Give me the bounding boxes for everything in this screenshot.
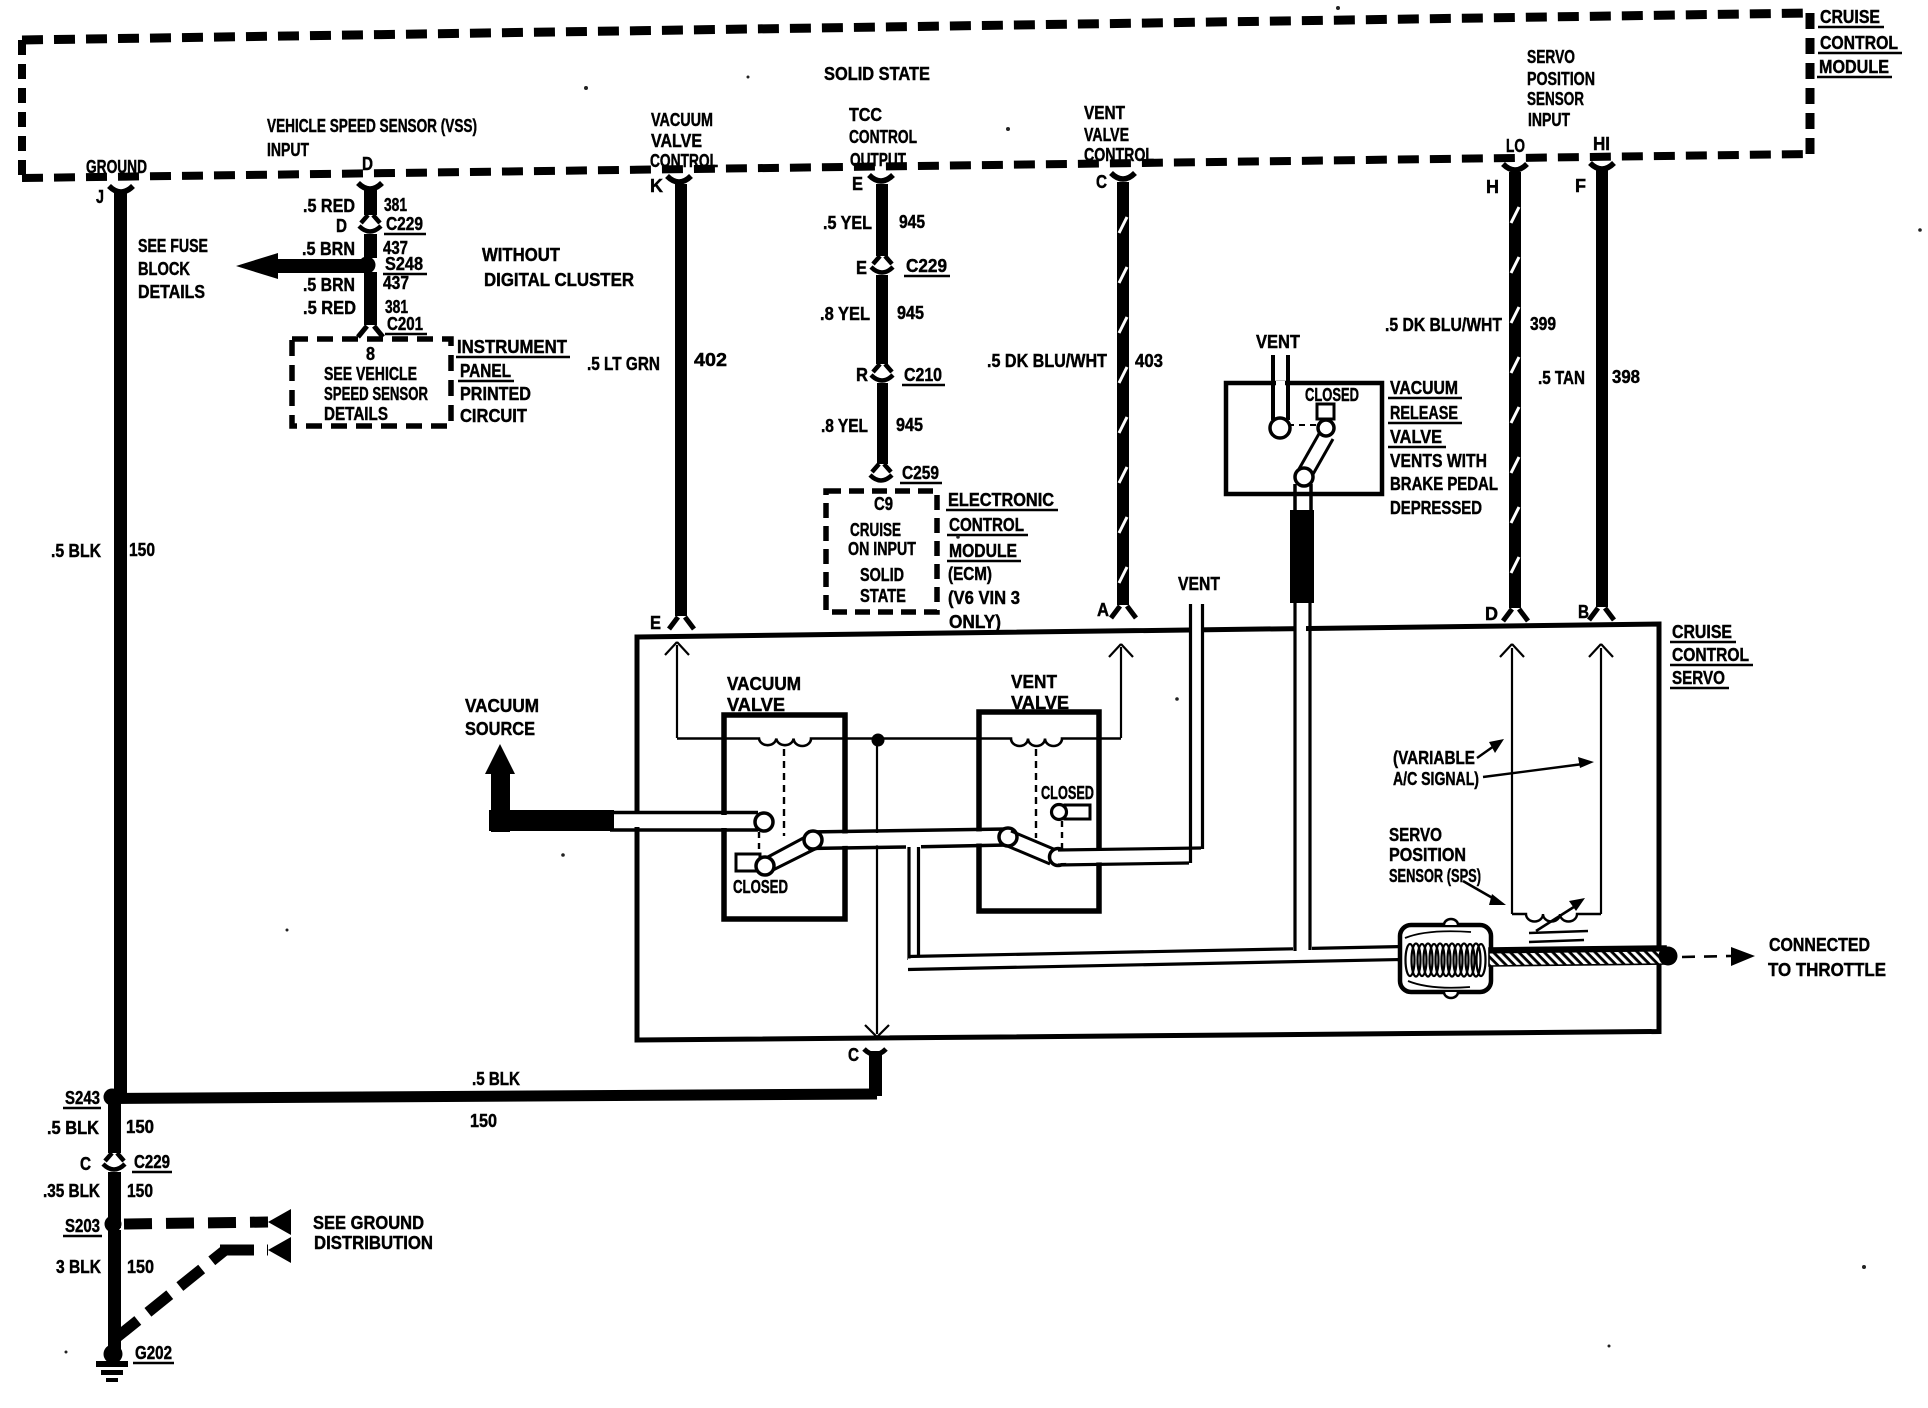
vacuum valve closed seat rect <box>736 854 760 871</box>
connector terminal K <box>667 176 691 182</box>
wire VSS 437/381 lower <box>364 272 377 325</box>
svg-text:CONTROL: CONTROL <box>650 151 718 171</box>
label TCC CONTROL OUTPUT <box>849 105 917 170</box>
down tube from mid tube <box>909 843 919 961</box>
svg-text:150: 150 <box>126 1117 154 1137</box>
mid tube white fill <box>810 831 1007 847</box>
throttle rod end cap <box>1659 947 1678 966</box>
wire TCC .8 YEL 945 lower <box>877 383 888 464</box>
svg-text:VALVE: VALVE <box>727 695 785 715</box>
release valve arm <box>1299 432 1333 476</box>
label SERVO POSITION SENSOR INPUT <box>1527 47 1595 130</box>
svg-text:CLOSED: CLOSED <box>1041 783 1094 803</box>
wire C stub <box>869 1051 882 1096</box>
vacuum motor body <box>1400 925 1491 992</box>
svg-text:SEE GROUND: SEE GROUND <box>313 1213 424 1233</box>
release valve outlet tube <box>1295 484 1311 512</box>
vacuum valve plunger dashed line <box>783 749 785 836</box>
mid tube end circle at vent valve <box>999 828 1017 846</box>
label (VARIABLE A/C SIGNAL) <box>1393 748 1479 789</box>
connector C201 <box>358 326 383 337</box>
svg-text:DIGITAL CLUSTER: DIGITAL CLUSTER <box>484 270 634 290</box>
svg-text:CONTROL: CONTROL <box>1820 33 1898 53</box>
white gap in servo left edge for source tube <box>632 814 644 827</box>
connector terminal F <box>1590 163 1614 169</box>
svg-text:150: 150 <box>127 1257 154 1277</box>
svg-text:.5 BRN: .5 BRN <box>302 239 355 259</box>
dashed arrow to throttle <box>1682 947 1755 966</box>
svg-text:B: B <box>1578 602 1589 622</box>
svg-text:VEHICLE SPEED SENSOR (VSS): VEHICLE SPEED SENSOR (VSS) <box>267 116 477 136</box>
vacuum valve arm pivot circle <box>756 857 774 875</box>
connector servo D <box>1503 609 1528 621</box>
svg-text:CONNECTED: CONNECTED <box>1769 935 1870 955</box>
svg-text:S203: S203 <box>65 1216 100 1236</box>
label INSTRUMENT PANEL PRINTED CIRCUIT <box>456 337 570 426</box>
wire servo LO .5 DK BLU/WHT 399 <box>1509 172 1521 608</box>
svg-text:SERVO: SERVO <box>1672 668 1725 688</box>
ECM dashed box C9 cruise on input <box>826 491 937 612</box>
vacuum motor spring coil <box>1406 944 1486 977</box>
arrow up to A inside servo <box>1109 644 1133 738</box>
connector terminal D <box>358 183 382 189</box>
splice S248 <box>359 257 376 274</box>
svg-text:(VARIABLE: (VARIABLE <box>1393 748 1475 768</box>
svg-text:CONTROL: CONTROL <box>1084 145 1154 165</box>
wire vacuum valve control .5 LT GRN 402 <box>675 184 687 616</box>
SPS resistor element <box>1512 914 1601 922</box>
svg-text:SPEED SENSOR: SPEED SENSOR <box>324 384 428 404</box>
label CRUISE CONTROL SERVO <box>1670 622 1753 688</box>
connector servo B <box>1589 608 1614 620</box>
svg-text:C: C <box>1096 172 1107 192</box>
svg-text:SENSOR: SENSOR <box>1527 89 1584 109</box>
arrow to fuse block <box>236 253 278 279</box>
svg-text:DEPRESSED: DEPRESSED <box>1390 498 1482 518</box>
throttle rod hatched <box>1489 946 1666 966</box>
wire servo HI .5 TAN 398 <box>1596 170 1608 607</box>
svg-text:C229: C229 <box>134 1152 170 1172</box>
svg-text:E: E <box>856 258 867 278</box>
svg-text:VALVE: VALVE <box>651 131 702 151</box>
svg-text:H: H <box>1486 177 1499 197</box>
vent pipe into release valve <box>1273 355 1288 420</box>
svg-text:D: D <box>1485 604 1498 624</box>
cruise control module dashed box <box>22 13 1810 178</box>
svg-text:K: K <box>650 176 663 196</box>
svg-text:D: D <box>336 216 347 236</box>
connector C229 TCC <box>871 256 893 273</box>
svg-text:945: 945 <box>897 303 924 323</box>
release valve lower pivot circle <box>1295 468 1313 486</box>
svg-text:VENTS WITH: VENTS WITH <box>1390 451 1487 471</box>
svg-text:SOLID: SOLID <box>860 565 904 585</box>
svg-text:SOURCE: SOURCE <box>465 719 535 739</box>
svg-text:VACUUM: VACUUM <box>727 674 801 694</box>
wire ground J to S243 .5 BLK 150 <box>114 191 127 1097</box>
label CRUISE ON INPUT SOLID STATE <box>848 520 916 606</box>
SPS wiper arrow <box>1536 898 1585 931</box>
svg-text:TO THROTTLE: TO THROTTLE <box>1768 960 1886 980</box>
connector terminal H <box>1503 164 1527 170</box>
wire B arrow down to SPS <box>1589 644 1613 914</box>
cruise control servo box <box>637 624 1659 1040</box>
wire vent valve control .5 DK BLU/WHT 403 <box>1117 182 1129 605</box>
svg-text:VENT: VENT <box>1256 332 1300 352</box>
svg-text:.5 RED: .5 RED <box>303 298 356 318</box>
svg-text:381: 381 <box>384 195 407 215</box>
svg-text:.8 YEL: .8 YEL <box>820 304 870 324</box>
wire S243 to C .5 BLK 150 <box>112 1094 877 1099</box>
svg-text:CONTROL: CONTROL <box>949 515 1024 535</box>
svg-text:BRAKE PEDAL: BRAKE PEDAL <box>1390 474 1498 494</box>
svg-text:C210: C210 <box>904 365 942 385</box>
svg-text:S248: S248 <box>385 254 423 274</box>
svg-text:VACUUM: VACUUM <box>465 696 539 716</box>
wire TCC .8 YEL 945 mid <box>876 275 888 364</box>
bottom tube to vacuum motor <box>908 947 1400 970</box>
svg-text:F: F <box>1575 176 1586 196</box>
svg-text:.5 RED: .5 RED <box>303 196 355 216</box>
svg-text:.5 YEL: .5 YEL <box>823 213 872 233</box>
svg-text:.5 TAN: .5 TAN <box>1538 368 1585 388</box>
svg-text:DETAILS: DETAILS <box>138 282 205 302</box>
svg-text:945: 945 <box>899 212 925 232</box>
svg-text:POSITION: POSITION <box>1527 69 1595 89</box>
connector terminal J <box>109 186 133 192</box>
svg-text:945: 945 <box>896 415 923 435</box>
svg-text:VACUUM: VACUUM <box>1390 378 1458 398</box>
svg-text:.5 LT GRN: .5 LT GRN <box>587 354 660 374</box>
connector servo A <box>1111 606 1136 618</box>
wire VSS 381 upper <box>364 188 377 215</box>
svg-text:3 BLK: 3 BLK <box>56 1257 101 1277</box>
wire VSS 437 upper <box>364 234 377 258</box>
wire C229 to S203 .35 BLK 150 <box>108 1172 121 1228</box>
wire S243 to C229 .5 BLK 150 <box>108 1103 121 1153</box>
svg-text:8: 8 <box>366 344 375 364</box>
label SEE GROUND DISTRIBUTION <box>313 1213 433 1253</box>
svg-text:DISTRIBUTION: DISTRIBUTION <box>314 1233 433 1253</box>
label VACUUM VALVE <box>727 674 801 715</box>
svg-text:MODULE: MODULE <box>949 541 1017 561</box>
svg-text:HI: HI <box>1593 134 1610 154</box>
svg-text:.5 BLK: .5 BLK <box>51 541 101 561</box>
label VEHICLE SPEED SENSOR (VSS) INPUT <box>267 116 477 160</box>
svg-text:VENT: VENT <box>1011 672 1057 692</box>
splice S203 <box>105 1216 122 1233</box>
svg-text:BLOCK: BLOCK <box>138 259 190 279</box>
mid tube vacuum to vent valve <box>808 829 1007 849</box>
label VACUUM SOURCE <box>465 696 539 739</box>
svg-text:C229: C229 <box>386 214 423 234</box>
svg-text:C259: C259 <box>902 463 939 483</box>
svg-text:150: 150 <box>470 1111 497 1131</box>
vacuum motor top nub <box>1444 919 1458 925</box>
arrow SPS label to resistor <box>1463 881 1506 905</box>
svg-text:VENT: VENT <box>1178 574 1220 594</box>
arrow variable to D line <box>1477 739 1504 758</box>
vent valve seat circle <box>1052 805 1067 820</box>
svg-text:.5 BLK: .5 BLK <box>47 1118 99 1138</box>
svg-text:.35 BLK: .35 BLK <box>43 1181 100 1201</box>
label VENT VALVE CONTROL <box>1084 103 1154 165</box>
vacuum valve box <box>724 715 845 919</box>
connector C210 <box>871 364 893 381</box>
vacuum source arrow and hose <box>485 744 614 832</box>
svg-text:STATE: STATE <box>860 586 906 606</box>
svg-text:PRINTED: PRINTED <box>460 384 531 404</box>
svg-text:(ECM): (ECM) <box>948 564 992 584</box>
connector terminal E <box>869 175 893 181</box>
svg-text:403: 403 <box>1135 351 1163 371</box>
label SEE VEHICLE SPEED SENSOR DETAILS <box>324 364 428 424</box>
svg-text:.5 DK BLU/WHT: .5 DK BLU/WHT <box>987 351 1107 371</box>
vent valve box <box>979 712 1099 911</box>
dashed wire S203 to ground distribution <box>124 1222 268 1224</box>
svg-text:ONLY): ONLY) <box>949 612 1001 632</box>
svg-text:CRUISE: CRUISE <box>1820 7 1880 27</box>
vent valve seat rect <box>1065 805 1090 819</box>
label VACUUM RELEASE VALVE VENTS WITH BRAKE PEDAL DEPRESSED <box>1388 378 1498 518</box>
release valve pivot circle left <box>1270 418 1290 438</box>
svg-text:C: C <box>80 1154 91 1174</box>
connector servo E <box>669 617 694 629</box>
arrow ground distribution lower <box>268 1237 291 1263</box>
release valve tube down into servo <box>1295 603 1310 953</box>
svg-text:(V6 VIN 3: (V6 VIN 3 <box>948 588 1020 608</box>
svg-text:S243: S243 <box>65 1088 100 1108</box>
svg-text:GROUND: GROUND <box>86 157 147 177</box>
svg-text:SOLID STATE: SOLID STATE <box>824 64 930 84</box>
svg-text:SEE VEHICLE: SEE VEHICLE <box>324 364 417 384</box>
svg-text:ON INPUT: ON INPUT <box>848 539 916 559</box>
label VENT VALVE <box>1011 672 1069 713</box>
svg-text:150: 150 <box>129 540 155 560</box>
svg-text:E: E <box>650 613 661 633</box>
svg-text:INSTRUMENT: INSTRUMENT <box>457 337 567 357</box>
vent tube elbow from vent valve <box>1058 604 1203 865</box>
label CONNECTED TO THROTTLE <box>1768 935 1886 980</box>
SPS base lines <box>1529 931 1588 933</box>
arrow ground distribution upper <box>268 1209 291 1235</box>
svg-text:SERVO: SERVO <box>1389 825 1442 845</box>
svg-text:C9: C9 <box>874 494 893 514</box>
svg-text:150: 150 <box>127 1181 153 1201</box>
label WITHOUT DIGITAL CLUSTER <box>482 245 634 290</box>
svg-text:WITHOUT: WITHOUT <box>482 245 560 265</box>
svg-text:TCC: TCC <box>849 105 882 125</box>
svg-text:.5 BLK: .5 BLK <box>472 1069 520 1089</box>
svg-text:E: E <box>852 174 863 194</box>
vacuum release valve box <box>1226 383 1382 494</box>
connector C259 <box>870 464 892 481</box>
svg-text:.8 YEL: .8 YEL <box>821 416 868 436</box>
svg-text:C: C <box>848 1045 859 1065</box>
svg-text:VENT: VENT <box>1084 103 1125 123</box>
svg-text:399: 399 <box>1530 314 1556 334</box>
svg-text:POSITION: POSITION <box>1389 845 1466 865</box>
svg-text:INPUT: INPUT <box>267 140 309 160</box>
dashed diagonal wire to ground distribution <box>116 1250 268 1338</box>
svg-text:OUTPUT: OUTPUT <box>850 150 906 170</box>
release valve seat rect <box>1317 404 1334 419</box>
label SERVO POSITION SENSOR (SPS) <box>1389 825 1481 886</box>
svg-text:.5 DK BLU/WHT: .5 DK BLU/WHT <box>1385 315 1502 335</box>
svg-text:CONTROL: CONTROL <box>1672 645 1749 665</box>
vent valve arm pivot circle <box>1050 849 1067 866</box>
connector servo C <box>864 1049 886 1055</box>
svg-text:.5 BRN: .5 BRN <box>303 275 355 295</box>
ground G202 <box>96 1345 128 1383</box>
svg-text:CLOSED: CLOSED <box>733 877 788 897</box>
svg-text:J: J <box>96 187 104 207</box>
svg-text:G202: G202 <box>135 1343 172 1363</box>
vacuum motor bottom nub <box>1444 992 1458 998</box>
wire S203 to G202 3 BLK 150 <box>108 1230 121 1349</box>
svg-text:CRUISE: CRUISE <box>850 520 901 540</box>
label SEE FUSE BLOCK DETAILS <box>138 236 208 302</box>
white gap in servo top edge for vent tube <box>1191 622 1201 636</box>
arrow up to E inside servo <box>665 642 689 738</box>
svg-text:398: 398 <box>1612 367 1640 387</box>
svg-text:CIRCUIT: CIRCUIT <box>460 406 527 426</box>
svg-text:ELECTRONIC: ELECTRONIC <box>948 490 1054 510</box>
svg-text:CLOSED: CLOSED <box>1305 385 1359 405</box>
svg-text:SERVO: SERVO <box>1527 47 1575 67</box>
arrow variable to B line <box>1483 757 1594 777</box>
white gap in servo top edge for release tube <box>1296 621 1306 635</box>
svg-text:SEE FUSE: SEE FUSE <box>138 236 208 256</box>
instrument panel dashed box (see vehicle speed sensor details) <box>292 339 451 426</box>
label VACUUM VALVE CONTROL <box>650 110 718 171</box>
wire D arrow down to SPS <box>1500 644 1524 914</box>
coil wire E to A with valve solenoid coils <box>677 739 1121 747</box>
svg-text:MODULE: MODULE <box>1819 57 1889 77</box>
svg-text:RELEASE: RELEASE <box>1390 403 1458 423</box>
svg-text:437: 437 <box>383 273 409 293</box>
vacuum valve inlet circle <box>755 813 773 831</box>
label ELECTRONIC CONTROL MODULE (ECM) (V6 VIN 3 ONLY) <box>946 490 1058 632</box>
svg-text:A/C SIGNAL): A/C SIGNAL) <box>1393 769 1479 789</box>
svg-text:CRUISE: CRUISE <box>1672 622 1732 642</box>
connector C229 VSS <box>359 215 381 232</box>
vacuum valve arm <box>766 835 817 871</box>
connector terminal C <box>1111 173 1135 179</box>
svg-text:D: D <box>362 154 373 174</box>
wire to fuse block <box>275 259 370 273</box>
release valve seat circle <box>1318 420 1334 436</box>
splice S243 <box>104 1089 121 1106</box>
wire TCC .5 YEL 945 <box>876 184 888 256</box>
junction node <box>872 734 885 747</box>
svg-text:C229: C229 <box>906 256 947 276</box>
svg-text:LO: LO <box>1506 136 1525 156</box>
vent valve plunger dashed line <box>1035 749 1037 838</box>
wire junction down to C arrow <box>865 746 889 1037</box>
release valve dashed link <box>1288 424 1320 426</box>
svg-text:C201: C201 <box>387 314 423 334</box>
svg-text:INPUT: INPUT <box>1528 110 1570 130</box>
vent valve arm <box>1005 831 1056 864</box>
svg-text:VALVE: VALVE <box>1084 125 1129 145</box>
svg-text:R: R <box>856 365 868 385</box>
vacuum motor inner curves <box>1405 931 1471 938</box>
mid tube end circle at vacuum valve <box>804 831 822 849</box>
svg-text:VALVE: VALVE <box>1011 693 1069 713</box>
svg-text:CONTROL: CONTROL <box>849 127 917 147</box>
svg-text:DETAILS: DETAILS <box>324 404 388 424</box>
connector C229 ground <box>103 1153 125 1170</box>
vacuum source tube into servo <box>610 813 758 831</box>
svg-text:402: 402 <box>694 350 727 370</box>
svg-text:PANEL: PANEL <box>460 361 511 381</box>
svg-text:VALVE: VALVE <box>1390 427 1442 447</box>
release valve hose black segment <box>1290 510 1314 603</box>
svg-text:A: A <box>1097 600 1109 620</box>
svg-text:VACUUM: VACUUM <box>651 110 713 130</box>
label CRUISE CONTROL MODULE <box>1817 7 1902 77</box>
